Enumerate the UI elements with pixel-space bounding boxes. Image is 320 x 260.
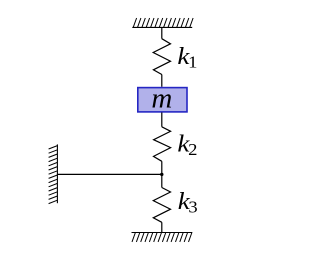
wire spring k2 to node <box>161 161 163 174</box>
svg-text:k1: k1 <box>177 42 197 71</box>
spring k2 <box>154 127 171 162</box>
svg-text:k2: k2 <box>177 130 197 159</box>
wire spring k1 to mass <box>161 75 163 87</box>
left wall hatching <box>49 146 58 204</box>
wire ceiling to spring k1 <box>161 27 163 38</box>
wire mass to spring k2 <box>161 113 163 127</box>
wire wall to node <box>57 173 161 175</box>
floor support line <box>132 232 193 234</box>
svg-text:k3: k3 <box>178 187 198 216</box>
svg-text:m: m <box>151 83 172 115</box>
left wall support line <box>56 144 58 203</box>
wire spring k3 to floor <box>161 222 163 232</box>
spring k1 <box>153 39 170 75</box>
wire node to spring k3 <box>161 174 163 187</box>
node (junction dot) <box>160 173 163 176</box>
ceiling hatching <box>133 18 193 27</box>
label k1 <box>177 42 197 71</box>
ceiling support line <box>132 26 192 28</box>
label k3 <box>178 187 198 216</box>
spring k3 <box>153 188 170 223</box>
mass m (block) <box>138 88 187 112</box>
label k2 <box>177 130 197 159</box>
floor hatching <box>132 233 192 242</box>
